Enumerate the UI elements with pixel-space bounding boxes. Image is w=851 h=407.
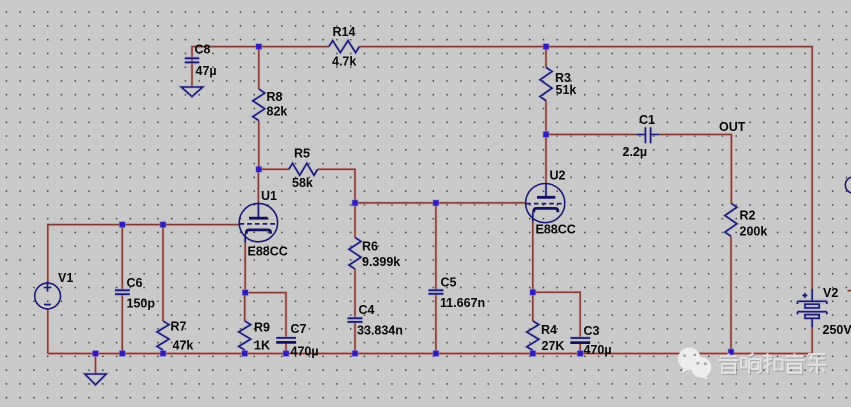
svg-text:82k: 82k bbox=[267, 105, 288, 119]
svg-text:470µ: 470µ bbox=[584, 343, 612, 357]
svg-text:R5: R5 bbox=[294, 147, 310, 161]
svg-text:V2: V2 bbox=[823, 286, 838, 300]
svg-text:58k: 58k bbox=[292, 176, 313, 190]
svg-text:C1: C1 bbox=[639, 113, 655, 127]
svg-text:E88CC: E88CC bbox=[536, 223, 576, 237]
svg-text:9.399k: 9.399k bbox=[362, 255, 400, 269]
svg-text:33.834n: 33.834n bbox=[357, 324, 403, 338]
svg-text:150p: 150p bbox=[127, 297, 156, 311]
svg-text:11.667n: 11.667n bbox=[440, 296, 485, 310]
svg-text:47µ: 47µ bbox=[196, 64, 217, 78]
svg-text:C7: C7 bbox=[291, 322, 307, 336]
svg-text:4.7k: 4.7k bbox=[332, 55, 356, 69]
svg-text:R7: R7 bbox=[171, 320, 187, 334]
svg-text:R8: R8 bbox=[267, 90, 283, 104]
svg-text:27K: 27K bbox=[542, 339, 565, 353]
svg-text:1K: 1K bbox=[254, 339, 270, 353]
svg-text:47k: 47k bbox=[173, 339, 194, 353]
svg-text:U1: U1 bbox=[261, 189, 277, 203]
svg-text:200k: 200k bbox=[740, 225, 768, 239]
svg-text:2.2µ: 2.2µ bbox=[623, 145, 648, 159]
svg-text:E88CC: E88CC bbox=[248, 245, 288, 259]
svg-text:C5: C5 bbox=[441, 276, 457, 290]
svg-text:C4: C4 bbox=[359, 303, 375, 317]
svg-text:C8: C8 bbox=[195, 43, 211, 57]
svg-text:470µ: 470µ bbox=[291, 345, 319, 359]
svg-text:250V: 250V bbox=[823, 323, 851, 337]
svg-text:C6: C6 bbox=[127, 276, 143, 290]
svg-text:R2: R2 bbox=[740, 209, 756, 223]
svg-text:C3: C3 bbox=[584, 324, 600, 338]
svg-text:51k: 51k bbox=[556, 83, 577, 97]
svg-text:OUT: OUT bbox=[719, 120, 746, 134]
svg-text:R4: R4 bbox=[541, 323, 557, 337]
svg-text:R9: R9 bbox=[254, 321, 270, 335]
svg-text:R14: R14 bbox=[333, 25, 356, 39]
svg-text:V1: V1 bbox=[58, 271, 73, 285]
svg-text:U2: U2 bbox=[550, 169, 566, 183]
svg-text:R6: R6 bbox=[362, 240, 378, 254]
